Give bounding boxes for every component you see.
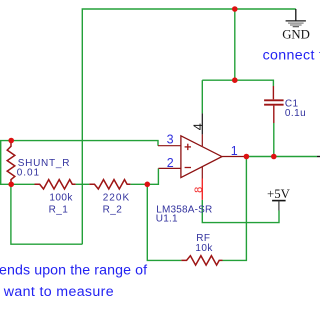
wire main row segment 1 <box>0 183 35 185</box>
svg-text:8: 8 <box>193 187 205 193</box>
svg-text:ends upon the range of: ends upon the range of <box>0 262 147 278</box>
wire C1 bottom to output <box>273 123 275 157</box>
junction dots <box>8 138 14 144</box>
wire vertical to C1 row <box>234 9 236 80</box>
wire pin8 net green <box>202 200 279 223</box>
svg-text:10k: 10k <box>195 243 213 254</box>
svg-text:4: 4 <box>191 123 205 130</box>
resistor RF <box>181 256 222 265</box>
svg-text:U1.1: U1.1 <box>156 214 178 225</box>
wire main row segment 2 <box>76 183 90 185</box>
wire bottom left loop <box>11 184 82 244</box>
svg-text:1: 1 <box>231 144 238 158</box>
svg-text:0.01: 0.01 <box>17 168 40 179</box>
svg-text:R_2: R_2 <box>103 204 123 215</box>
svg-text:R_1: R_1 <box>49 204 69 215</box>
resistor R_1 <box>35 180 76 189</box>
svg-text:want to measure: want to measure <box>3 284 114 300</box>
svg-text:220K: 220K <box>103 193 131 204</box>
svg-text:connect to th: connect to th <box>263 47 320 63</box>
wire pin2 link <box>147 168 158 184</box>
wire left edge stub <box>0 141 2 185</box>
wire node A input top <box>0 141 158 146</box>
op-amp U1 <box>158 134 244 178</box>
wire feedback right <box>223 157 247 261</box>
wire output black tip <box>317 156 320 158</box>
svg-text:GND: GND <box>282 28 310 42</box>
wire top rail <box>82 9 295 244</box>
resistor R_2 <box>89 180 130 189</box>
wire pin8 net red <box>201 179 203 200</box>
resistor SHUNT_R <box>7 141 15 184</box>
wire pin4 drop black <box>201 113 203 134</box>
ground <box>282 9 310 42</box>
svg-text:0.1u: 0.1u <box>285 108 306 119</box>
capacitor C1 <box>264 86 284 123</box>
wire output row <box>246 156 317 158</box>
wire C1 row horizontal <box>202 80 273 86</box>
svg-text:+5V: +5V <box>267 187 291 201</box>
svg-text:2: 2 <box>167 156 174 170</box>
svg-text:100k: 100k <box>49 193 73 204</box>
wire pin4 drop green <box>201 80 203 113</box>
svg-text:3: 3 <box>167 133 174 147</box>
wire main row segment 3 <box>130 183 147 185</box>
wire feedback left <box>147 184 181 260</box>
power +5V <box>267 187 291 210</box>
